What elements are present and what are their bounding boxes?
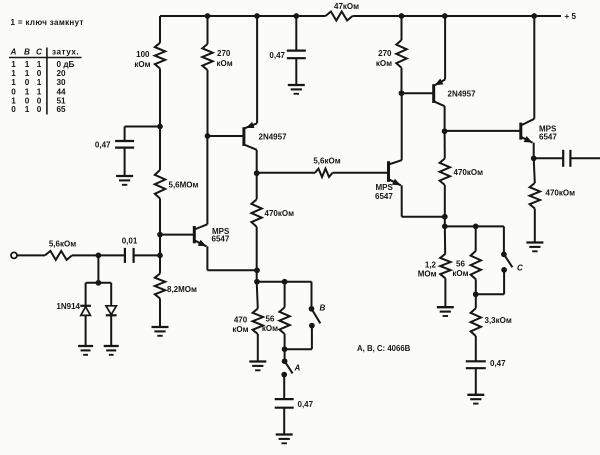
svg-text:470: 470 bbox=[234, 316, 248, 325]
svg-text:30: 30 bbox=[57, 78, 67, 87]
svg-text:МОм: МОм bbox=[418, 269, 437, 278]
svg-text:А, В, С: 4066В: А, В, С: 4066В bbox=[357, 344, 411, 353]
svg-text:кОм: кОм bbox=[232, 325, 248, 334]
svg-text:6547: 6547 bbox=[375, 192, 393, 201]
svg-text:2N4957: 2N4957 bbox=[448, 90, 477, 99]
svg-text:B: B bbox=[320, 304, 326, 313]
svg-text:0: 0 bbox=[25, 78, 30, 87]
svg-text:затух.: затух. bbox=[52, 48, 79, 57]
svg-text:65: 65 bbox=[57, 105, 67, 114]
svg-text:1: 1 bbox=[25, 87, 30, 96]
svg-text:44: 44 bbox=[57, 87, 67, 96]
svg-text:1: 1 bbox=[37, 78, 42, 87]
svg-text:47кОм: 47кОм bbox=[334, 2, 359, 11]
svg-text:0: 0 bbox=[11, 87, 16, 96]
svg-text:3,3кОм: 3,3кОм bbox=[485, 316, 512, 325]
svg-text:кОм: кОм bbox=[376, 59, 392, 68]
svg-text:1N914: 1N914 bbox=[56, 302, 80, 311]
svg-text:470кОм: 470кОм bbox=[265, 209, 295, 218]
svg-text:0 дБ: 0 дБ bbox=[57, 60, 75, 69]
svg-text:1: 1 bbox=[11, 60, 16, 69]
svg-text:MPS: MPS bbox=[376, 183, 394, 192]
svg-text:56: 56 bbox=[456, 260, 465, 269]
svg-text:0,47: 0,47 bbox=[490, 359, 506, 368]
svg-text:8,2МОм: 8,2МОм bbox=[167, 285, 197, 294]
svg-text:0: 0 bbox=[37, 69, 42, 78]
svg-text:1: 1 bbox=[37, 60, 42, 69]
svg-text:1 = ключ замкнут: 1 = ключ замкнут bbox=[11, 18, 84, 27]
svg-text:1: 1 bbox=[11, 78, 16, 87]
svg-text:6547: 6547 bbox=[212, 235, 230, 244]
svg-text:A: A bbox=[294, 364, 301, 373]
svg-text:кОм: кОм bbox=[452, 269, 468, 278]
svg-text:470кОм: 470кОм bbox=[546, 189, 576, 198]
svg-text:кОм: кОм bbox=[262, 324, 278, 333]
svg-text:5,6МОм: 5,6МОм bbox=[169, 181, 199, 190]
svg-text:20: 20 bbox=[57, 69, 67, 78]
svg-text:5,6кОм: 5,6кОм bbox=[49, 240, 76, 249]
svg-text:0,47: 0,47 bbox=[298, 400, 314, 409]
svg-text:6547: 6547 bbox=[539, 132, 557, 141]
svg-text:1: 1 bbox=[37, 87, 42, 96]
svg-text:1,2: 1,2 bbox=[425, 260, 437, 269]
svg-text:270: 270 bbox=[217, 49, 231, 58]
svg-text:56: 56 bbox=[266, 315, 275, 324]
svg-text:5,6кОм: 5,6кОм bbox=[313, 157, 340, 166]
svg-text:100: 100 bbox=[136, 50, 150, 59]
svg-text:C: C bbox=[517, 264, 523, 273]
svg-text:2N4957: 2N4957 bbox=[259, 133, 288, 142]
svg-text:B: B bbox=[24, 48, 30, 57]
svg-text:270: 270 bbox=[378, 49, 392, 58]
svg-text:1: 1 bbox=[11, 69, 16, 78]
svg-text:0,01: 0,01 bbox=[122, 237, 138, 246]
svg-text:0: 0 bbox=[11, 105, 16, 114]
svg-text:кОм: кОм bbox=[134, 60, 150, 69]
svg-text:0,47: 0,47 bbox=[95, 141, 111, 150]
svg-text:0,47: 0,47 bbox=[269, 51, 285, 60]
svg-text:кОм: кОм bbox=[217, 59, 233, 68]
svg-text:1: 1 bbox=[25, 105, 30, 114]
svg-text:0: 0 bbox=[37, 105, 42, 114]
svg-text:+ 5: + 5 bbox=[565, 12, 577, 21]
svg-text:470кОм: 470кОм bbox=[454, 168, 484, 177]
svg-text:1: 1 bbox=[25, 60, 30, 69]
svg-text:A: A bbox=[10, 48, 17, 57]
svg-text:1: 1 bbox=[25, 69, 30, 78]
